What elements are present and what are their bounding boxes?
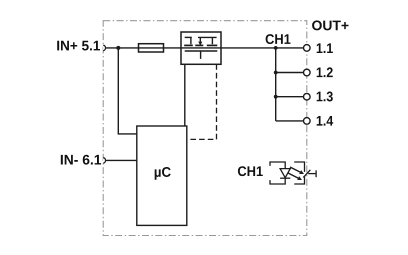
- label 1.4: [317, 116, 333, 126]
- label 1.1: [317, 43, 333, 53]
- wire: branch to 1.2: [276, 72, 304, 74]
- terminal IN+ 5.1 (socket arc): [103, 45, 105, 51]
- wire: branch to 1.4: [276, 120, 304, 122]
- node: junction below IN+: [116, 46, 120, 50]
- wire: fuse through-wire: [139, 47, 164, 49]
- wire: dashed gate control line from Q1 box to uC: [187, 64, 217, 139]
- fuse F1: [139, 44, 164, 52]
- dash-dot schematic border: [103, 21, 307, 236]
- label uC text: [155, 167, 171, 180]
- node: bus junction at 1.2: [274, 71, 278, 75]
- label 1.2: [317, 67, 333, 77]
- label IN+ 5.1: [57, 41, 100, 51]
- label CH1 (top): [266, 34, 291, 44]
- wire: branch to 1.3: [276, 96, 304, 98]
- node: bus junction at 1.3: [274, 95, 278, 99]
- wire: IN- to uC: [106, 159, 137, 161]
- label 1.3: [317, 92, 333, 102]
- transistor Q1 (MOSFET in box): [181, 32, 221, 64]
- terminal 1.1: [304, 45, 311, 52]
- microcontroller U1: [137, 126, 187, 225]
- label OUT+: [312, 20, 348, 30]
- wire: solid control line from Q1 box to uC: [184, 64, 186, 126]
- label CH1 (bottom): [238, 166, 263, 176]
- terminal 1.2: [304, 69, 311, 76]
- terminal 1.3: [304, 93, 311, 100]
- photo switch S1 of optocoupler: [294, 162, 316, 184]
- wire: output bus vertical: [275, 48, 277, 121]
- label IN- 6.1: [61, 155, 101, 165]
- terminal IN- 6.1 (socket arc): [103, 158, 105, 164]
- node: bus junction at 1.1: [274, 46, 278, 50]
- terminal 1.4: [304, 118, 311, 125]
- wire: main supply line IN+ to terminal 1.1: [106, 47, 304, 49]
- LED D1 of optocoupler (channel indicator): [270, 162, 290, 184]
- wire: from IN+ junction down and right to uC: [118, 48, 137, 134]
- optocoupler light arrows: [288, 167, 304, 180]
